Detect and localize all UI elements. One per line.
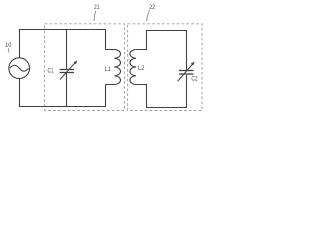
svg-text:L1: L1 xyxy=(105,66,111,73)
svg-text:L2: L2 xyxy=(138,65,145,72)
svg-text:10: 10 xyxy=(5,42,12,49)
svg-text:C2: C2 xyxy=(191,75,197,82)
svg-text:22: 22 xyxy=(149,4,155,11)
svg-text:21: 21 xyxy=(94,4,100,11)
svg-text:C1: C1 xyxy=(48,68,54,75)
